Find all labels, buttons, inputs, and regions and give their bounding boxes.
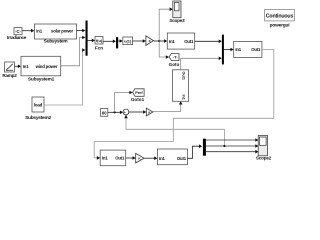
ramp source Ramp2 <box>2 62 17 78</box>
wire B1 out to Mux2 <box>195 40 222 44</box>
wire sum to gain2 <box>129 110 147 114</box>
gain G2 triangle <box>146 108 153 116</box>
svg-text:Irradiance: Irradiance <box>7 35 27 40</box>
subsystem1 wind power <box>21 56 61 82</box>
mux bar small <box>116 37 118 48</box>
svg-text:Continuous: Continuous <box>266 13 294 19</box>
constant block 60 <box>101 109 108 117</box>
wire junction up to Scope3 <box>159 7 173 41</box>
wire gain1 to In1Out1 block B1 with junction <box>154 39 168 43</box>
wire B2 out long return loop to B4 <box>94 50 274 160</box>
svg-text:Subsystem1: Subsystem1 <box>28 77 55 83</box>
goto tag -T- <box>169 54 180 68</box>
powergui block <box>265 10 295 29</box>
svg-text:Subsystem: Subsystem <box>44 39 68 45</box>
wire load out up to mux <box>44 48 85 105</box>
svg-text:In1: In1 <box>182 95 186 100</box>
svg-text:Pref: Pref <box>135 91 143 95</box>
Fcn block f(u) <box>95 37 103 51</box>
svg-text:load: load <box>34 102 43 107</box>
svg-text:Subsystem2: Subsystem2 <box>25 115 51 121</box>
demux output wire 1 to Scope2 <box>206 138 259 142</box>
svg-text:-C-: -C- <box>15 29 21 34</box>
scope Scope2 <box>256 136 272 161</box>
wire Irradiance to solar Subsystem <box>22 29 34 33</box>
wire Fcn to bus bar <box>103 40 116 44</box>
svg-text:Out1: Out1 <box>184 39 194 44</box>
svg-text:In1: In1 <box>235 47 241 52</box>
gain G3 triangle <box>136 153 144 163</box>
svg-text:60: 60 <box>102 110 107 115</box>
svg-text:Fcn: Fcn <box>95 45 103 50</box>
wire junction down to Goto <box>159 41 169 59</box>
sum block <box>123 109 129 117</box>
svg-text:In1: In1 <box>102 156 108 161</box>
rotated subsystem (In1 bottom, Out1 top) <box>172 70 188 102</box>
svg-text:Out1: Out1 <box>177 156 187 161</box>
svg-text:solar power: solar power <box>51 29 73 34</box>
subsystem solar power <box>35 24 77 45</box>
svg-text:-T-: -T- <box>173 55 179 60</box>
svg-text:powergui: powergui <box>270 22 290 28</box>
demux output wire 3 to Scope2 <box>206 150 259 154</box>
constant block Irradiance (-C-) <box>7 28 27 40</box>
svg-text:Ramp2: Ramp2 <box>2 73 17 78</box>
scope Scope3 <box>169 1 185 23</box>
wire bar to u(1) <box>118 39 123 43</box>
svg-text:Scope3: Scope3 <box>169 18 185 23</box>
svg-text:In1: In1 <box>23 64 29 69</box>
svg-text:f(u): f(u) <box>96 38 103 43</box>
wire mux to Fcn <box>88 39 95 43</box>
mux Mux1 <box>86 21 88 56</box>
selector block u(1) <box>123 37 133 45</box>
subsystem block B3 In1 Out1 <box>157 149 187 165</box>
wire u(1) to gain1 <box>133 39 146 43</box>
subsystem2 load <box>25 97 51 121</box>
subsystem block B1 In1 Out1 <box>167 33 194 49</box>
subsystem block B2 In1 Out1 <box>234 41 262 57</box>
wire Ramp2 to wind Subsystem1 <box>15 65 22 69</box>
wire B4 out to gain3 <box>126 156 136 160</box>
svg-text:In1: In1 <box>36 29 42 34</box>
feedback wire from demux mid output up-left into sum bottom <box>124 115 225 147</box>
svg-text:Scope2: Scope2 <box>256 156 272 161</box>
svg-text:Out1: Out1 <box>182 72 186 80</box>
subsystem block B4 In1 Out1 <box>100 150 126 166</box>
svg-text:Out1: Out1 <box>251 47 261 52</box>
svg-text:Out1: Out1 <box>115 156 125 161</box>
mux Mux2 <box>222 35 224 65</box>
goto tag Pref (Goto1) <box>131 89 145 102</box>
wire wind out up to mux <box>61 36 86 66</box>
wire Mux2 to B2 <box>224 48 234 52</box>
svg-text:Goto1: Goto1 <box>131 97 145 102</box>
svg-text:In1: In1 <box>159 156 165 161</box>
svg-text:In1: In1 <box>169 39 175 44</box>
svg-text:wind power: wind power <box>35 64 58 69</box>
wire 60 to sum with junction to Goto1 <box>108 111 123 115</box>
svg-text:u(1): u(1) <box>124 38 132 43</box>
demux output wire 2 to Scope2 <box>206 144 259 148</box>
wire gain3 to B3 <box>144 156 157 160</box>
wire solar out to mux <box>77 29 86 33</box>
wire junction up to Goto1 Pref <box>115 91 133 113</box>
demux bar <box>203 139 206 156</box>
svg-text:Goto: Goto <box>169 62 180 67</box>
gain G1 triangle <box>146 36 154 46</box>
wire B3 out up into demux <box>187 144 202 158</box>
wire gain2 right and up into rotated block In1 <box>153 101 183 111</box>
wire rotated block out up-right to Mux2 <box>181 57 222 70</box>
